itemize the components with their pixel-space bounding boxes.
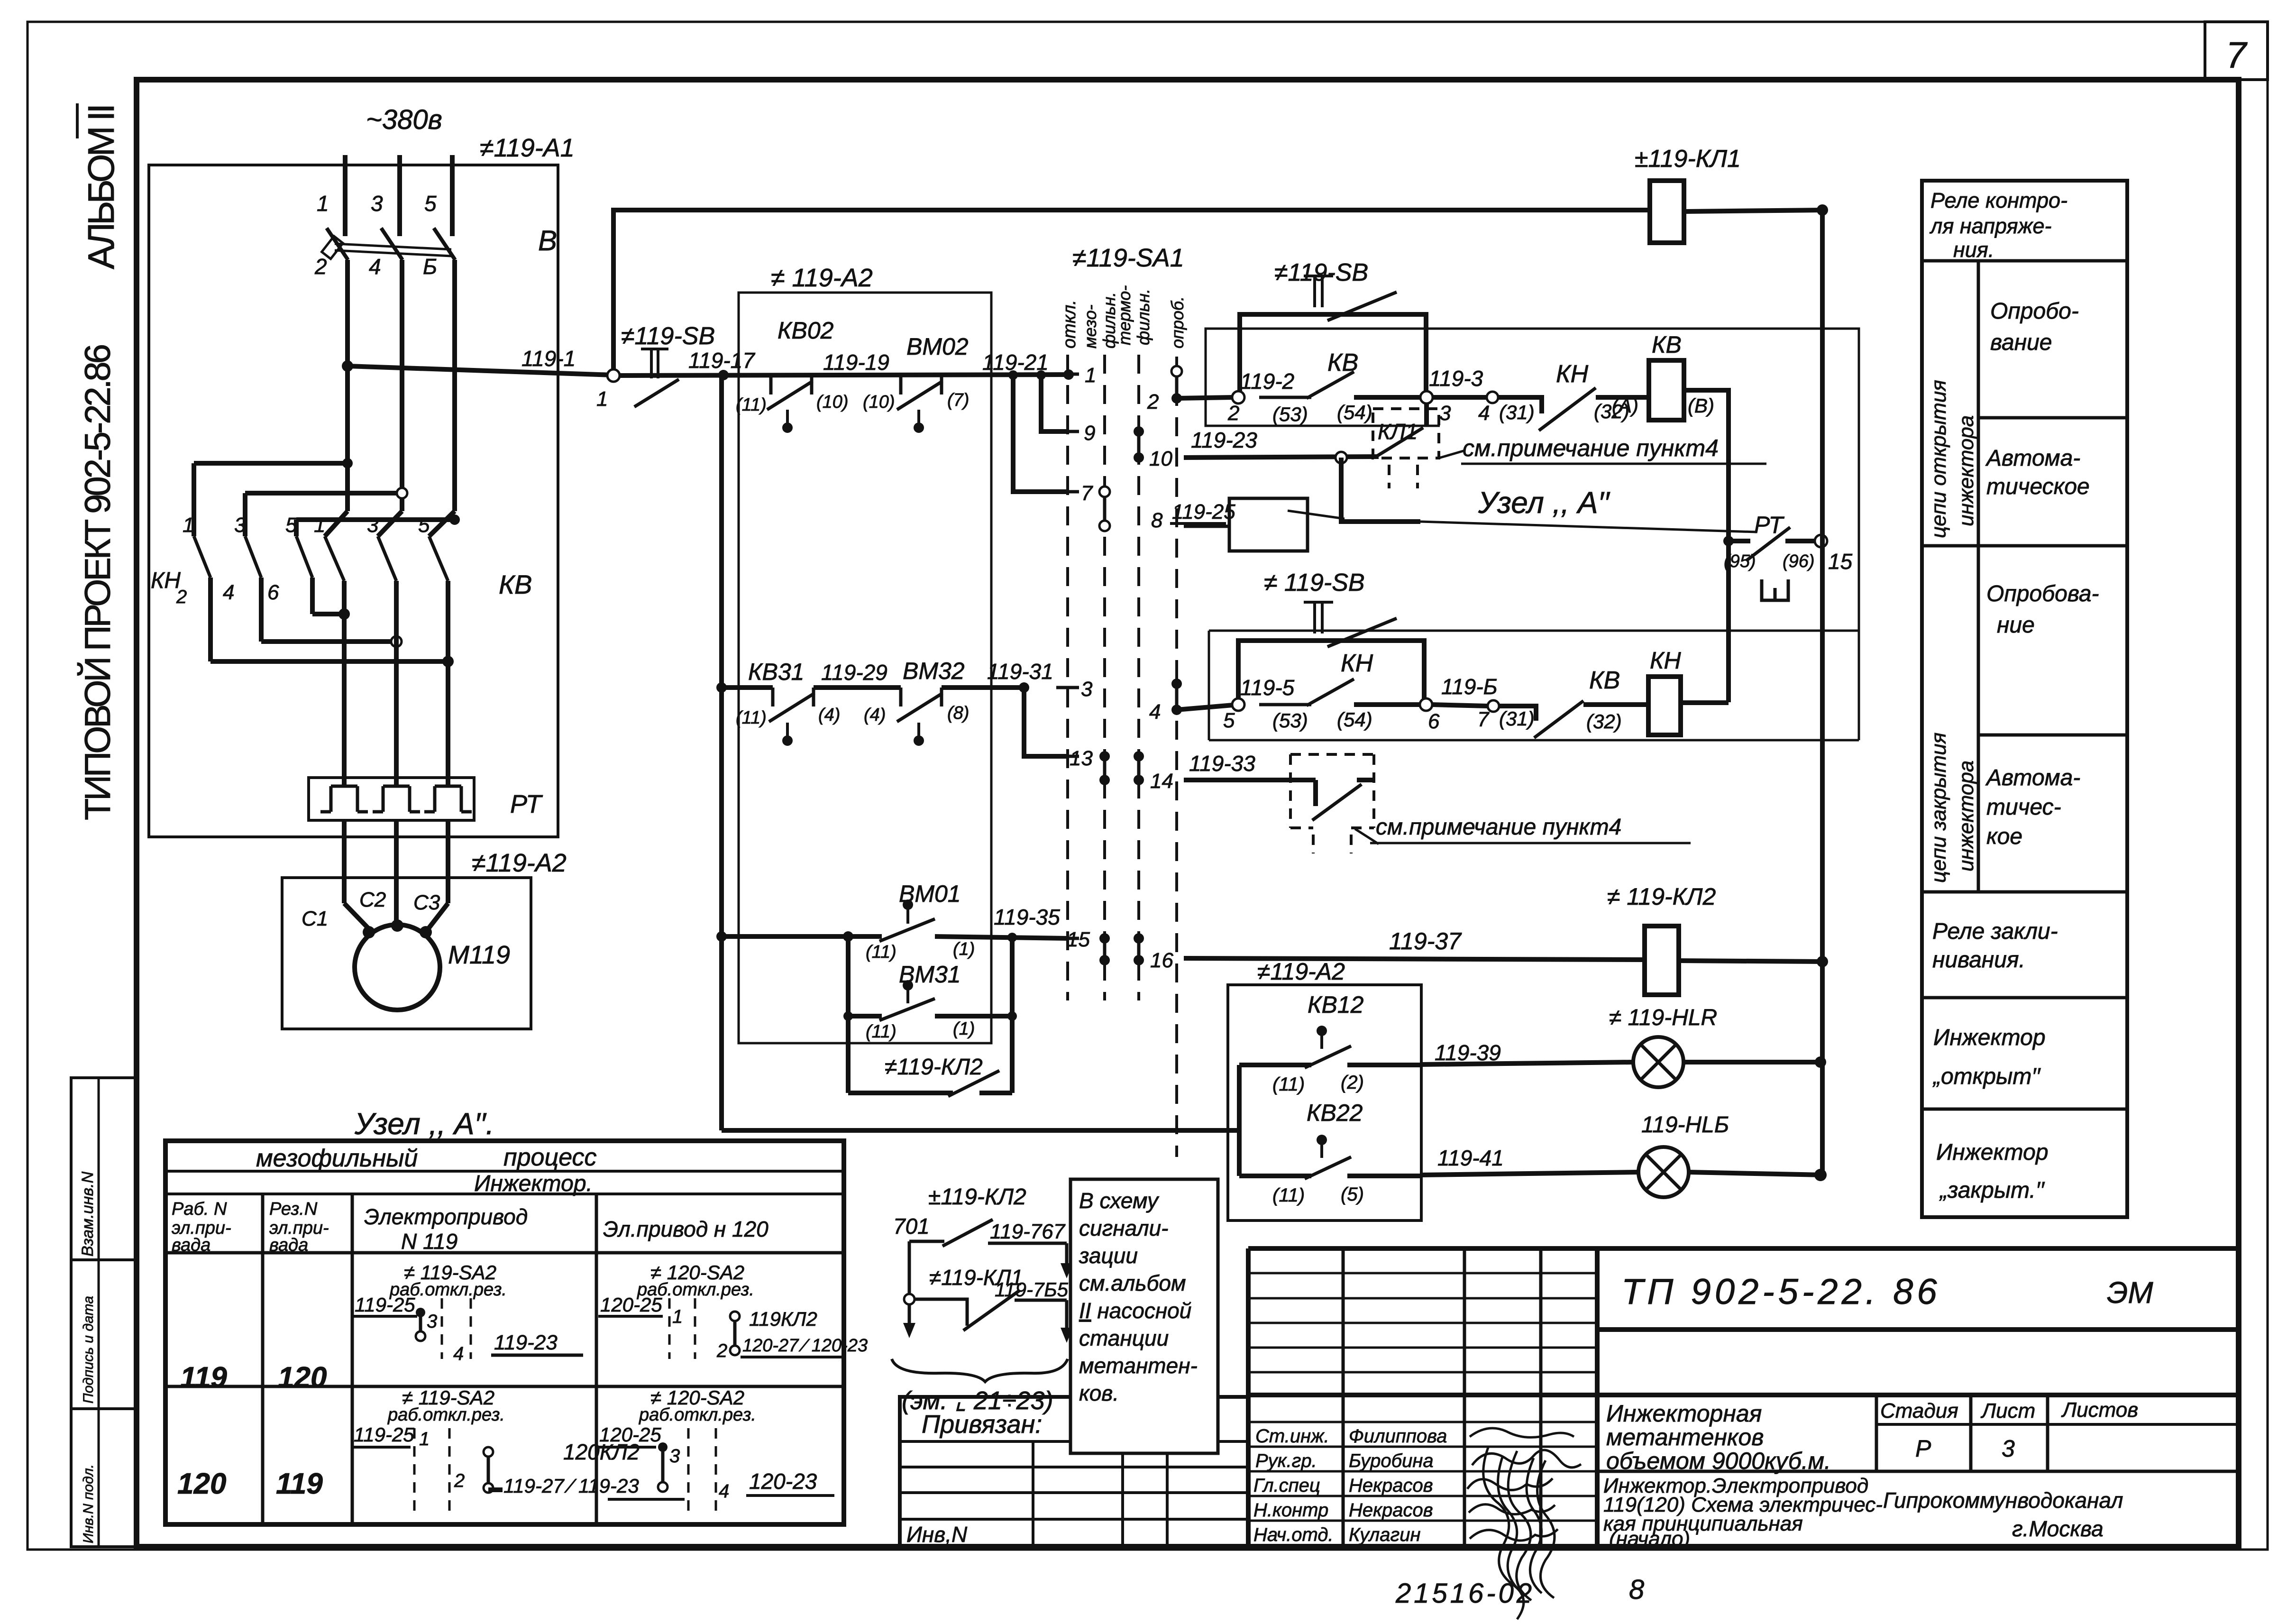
motor M119 xyxy=(355,925,440,1010)
svg-text:120-23: 120-23 xyxy=(749,1469,817,1494)
svg-text:М119: М119 xyxy=(448,941,510,969)
svg-text:нивания.: нивания. xyxy=(1932,947,2025,973)
relay KL1 contact dashed box xyxy=(1373,409,1439,458)
svg-text:119-23: 119-23 xyxy=(1191,428,1257,452)
svg-text:119-33: 119-33 xyxy=(1189,751,1255,776)
svg-text:цепи открытия: цепи открытия xyxy=(1927,380,1950,538)
node 119-1 tap xyxy=(342,360,353,372)
svg-text:4: 4 xyxy=(223,581,234,604)
svg-text:станции: станции xyxy=(1079,1326,1169,1350)
svg-text:тическое: тическое xyxy=(1986,474,2090,499)
svg-text:„открыт′′: „открыт′′ xyxy=(1932,1064,2041,1089)
svg-text:Электропривод: Электропривод xyxy=(364,1204,528,1229)
wire main row xyxy=(620,375,1068,376)
svg-text:(1): (1) xyxy=(953,1019,975,1039)
svg-text:8: 8 xyxy=(1151,509,1163,532)
svg-text:инжектора: инжектора xyxy=(1955,761,1978,872)
svg-text:≠119-SA1: ≠119-SA1 xyxy=(1072,244,1184,272)
svg-text:≠ 119-HLR: ≠ 119-HLR xyxy=(1609,1005,1717,1030)
svg-text:701: 701 xyxy=(893,1214,930,1239)
svg-text:раб.откл.рез.: раб.откл.рез. xyxy=(387,1405,505,1425)
wire 119-1 xyxy=(348,366,613,375)
node 119-6 xyxy=(1420,698,1432,711)
svg-text:г.Москва: г.Москва xyxy=(2012,1516,2104,1541)
phase line 1 xyxy=(343,155,348,236)
arrow to signal circuit 1 xyxy=(1065,1243,1069,1267)
svg-text:„закрыт.′′: „закрыт.′′ xyxy=(1939,1178,2045,1203)
KB12 KB22 box xyxy=(1228,985,1421,1220)
node 1 xyxy=(607,369,620,382)
right supply bus xyxy=(1820,210,1825,1175)
svg-text:119-25: 119-25 xyxy=(355,1294,415,1316)
svg-text:Раб. N: Раб. N xyxy=(172,1199,227,1219)
svg-text:119-2: 119-2 xyxy=(1240,369,1294,394)
svg-text:см.альбом: см.альбом xyxy=(1079,1271,1186,1295)
svg-text:(10): (10) xyxy=(863,392,895,412)
wire 119-41 xyxy=(1421,1172,1639,1175)
thin box around closing row xyxy=(1209,631,1859,740)
svg-text:119-39: 119-39 xyxy=(1435,1040,1501,1065)
svg-text:КВ02: КВ02 xyxy=(778,317,834,344)
node 119-17 xyxy=(718,370,729,380)
svg-text:С2: С2 xyxy=(359,888,386,911)
svg-text:5: 5 xyxy=(285,514,297,537)
svg-text:3: 3 xyxy=(669,1446,680,1467)
svg-text:Инжектор: Инжектор xyxy=(1933,1025,2046,1050)
svg-text:119КЛ2: 119КЛ2 xyxy=(749,1308,817,1330)
svg-text:3: 3 xyxy=(427,1311,437,1332)
svg-text:Рук.гр.: Рук.гр. xyxy=(1255,1450,1317,1471)
svg-text:7: 7 xyxy=(2226,34,2248,76)
SA1 bridges rows 13-14 xyxy=(1103,756,1107,780)
breaker tie bar xyxy=(335,244,451,249)
SB bypass loop xyxy=(1240,314,1426,396)
svg-text:метантен-: метантен- xyxy=(1079,1353,1198,1378)
svg-text:(11): (11) xyxy=(736,708,767,728)
svg-text:Филиппова: Филиппова xyxy=(1349,1426,1447,1447)
thermal relay RT box xyxy=(309,778,474,820)
svg-text:2: 2 xyxy=(1147,390,1159,413)
svg-text:119-35: 119-35 xyxy=(994,905,1060,929)
svg-text:119-Б: 119-Б xyxy=(1441,674,1498,699)
SA1 ticks on otkl xyxy=(1056,373,1079,376)
svg-text:Инв.N подл.: Инв.N подл. xyxy=(81,1464,96,1543)
svg-text:3: 3 xyxy=(2002,1435,2015,1462)
node 119-3 xyxy=(1420,391,1433,404)
svg-text:119-37: 119-37 xyxy=(1389,928,1462,954)
svg-text:ТП 902-5-22. 86: ТП 902-5-22. 86 xyxy=(1621,1272,1941,1312)
svg-text:±119-КЛ1: ±119-КЛ1 xyxy=(1635,145,1741,173)
svg-text:(11): (11) xyxy=(1272,1185,1305,1206)
svg-text:КН: КН xyxy=(1556,360,1589,388)
svg-text:ля напряже-: ля напряже- xyxy=(1929,214,2052,238)
node A link xyxy=(1341,458,1420,522)
svg-text:вада: вада xyxy=(269,1235,308,1255)
SA1 bridge rows 9-10 xyxy=(1137,431,1141,458)
svg-text:Инв,N: Инв,N xyxy=(906,1522,968,1547)
crossover wire top3 xyxy=(296,517,455,522)
svg-text:Подпись и дата: Подпись и дата xyxy=(81,1296,96,1404)
SA1 bridge rows 3-4 xyxy=(1175,684,1179,710)
svg-text:метантенков: метантенков xyxy=(1606,1424,1764,1450)
svg-text:(31): (31) xyxy=(1499,401,1535,423)
LEFT CONTROL BUS xyxy=(719,377,724,1130)
branch to row 7 xyxy=(1008,370,1018,380)
RT thermal element symbol xyxy=(1762,579,1788,600)
svg-text:14: 14 xyxy=(1150,770,1173,793)
svg-text:Кулагин: Кулагин xyxy=(1349,1524,1420,1545)
svg-text:(начало): (начало) xyxy=(1609,1527,1690,1551)
svg-text:±119-КЛ2: ±119-КЛ2 xyxy=(928,1184,1026,1210)
svg-text:II насосной: II насосной xyxy=(1079,1298,1191,1323)
svg-text:4: 4 xyxy=(1478,402,1490,425)
svg-text:(7): (7) xyxy=(947,390,969,410)
wire row 5 xyxy=(1177,705,1233,710)
dashed stubs below KL1 box 2 xyxy=(1313,835,1351,853)
svg-text:С3: С3 xyxy=(413,891,440,914)
svg-text:7: 7 xyxy=(1477,708,1490,731)
svg-text:119: 119 xyxy=(180,1361,227,1394)
svg-text:6: 6 xyxy=(1428,710,1440,733)
signal note box xyxy=(1070,1179,1218,1453)
svg-text:Эл.привод н 120: Эл.привод н 120 xyxy=(603,1217,768,1241)
svg-text:см.примечание пункт4: см.примечание пункт4 xyxy=(1376,815,1621,840)
svg-text:13: 13 xyxy=(1070,747,1093,770)
svg-text:объемом 9000куб.м.: объемом 9000куб.м. xyxy=(1606,1448,1831,1474)
svg-text:ТИПОВОЙ ПРОЕКТ 902-5-22.86: ТИПОВОЙ ПРОЕКТ 902-5-22.86 xyxy=(77,344,118,820)
svg-text:119-19: 119-19 xyxy=(823,350,889,375)
svg-text:≠ 119-КЛ2: ≠ 119-КЛ2 xyxy=(1607,883,1716,910)
svg-text:С1: С1 xyxy=(302,907,328,930)
svg-text:В схему: В схему xyxy=(1079,1188,1160,1213)
KH lower stubs xyxy=(208,578,213,661)
svg-text:9: 9 xyxy=(1084,422,1095,445)
svg-text:~380в: ~380в xyxy=(366,104,442,135)
thin box A2 xyxy=(739,293,991,1043)
svg-text:(4): (4) xyxy=(864,705,886,725)
crossover wire top1 xyxy=(194,461,348,466)
svg-text:≠119-А1: ≠119-А1 xyxy=(480,134,575,162)
svg-text:Н.контр: Н.контр xyxy=(1253,1500,1328,1521)
svg-text:Взам.инв.N: Взам.инв.N xyxy=(79,1171,97,1257)
svg-text:(5): (5) xyxy=(1341,1184,1364,1205)
svg-text:(8): (8) xyxy=(947,703,969,723)
sheet number box 7 xyxy=(2205,22,2268,80)
svg-text:Некрасов: Некрасов xyxy=(1349,1500,1433,1521)
signature scribbles xyxy=(1470,1428,1574,1437)
svg-text:119-25: 119-25 xyxy=(354,1423,414,1446)
svg-text:2: 2 xyxy=(716,1340,727,1361)
svg-text:3: 3 xyxy=(1439,402,1451,425)
svg-text:сигнали-: сигнали- xyxy=(1079,1216,1169,1240)
ROW BM01 xyxy=(716,931,727,942)
svg-text:Опробова-: Опробова- xyxy=(1986,581,2099,606)
svg-text:КВ: КВ xyxy=(499,569,532,599)
svg-text:(54): (54) xyxy=(1337,401,1372,423)
svg-text:119-27 ∕ 119-23: 119-27 ∕ 119-23 xyxy=(503,1475,639,1497)
svg-text:15: 15 xyxy=(1828,549,1853,574)
svg-text:120: 120 xyxy=(177,1468,226,1500)
svg-text:(10): (10) xyxy=(816,392,849,412)
svg-text:(4): (4) xyxy=(818,705,840,725)
svg-text:2: 2 xyxy=(176,587,187,607)
svg-text:КВ: КВ xyxy=(1652,331,1682,358)
svg-text:(11): (11) xyxy=(736,395,767,415)
svg-text:(96): (96) xyxy=(1783,551,1815,571)
svg-text:Реле контро-: Реле контро- xyxy=(1930,188,2067,212)
svg-text:КВ: КВ xyxy=(1589,667,1620,694)
svg-text:(1): (1) xyxy=(953,939,975,959)
svg-text:КЛ1: КЛ1 xyxy=(1378,419,1418,444)
svg-text:(11): (11) xyxy=(866,1022,896,1042)
RT heater 3 xyxy=(424,786,472,812)
PRIVYAZAN TABLE xyxy=(900,1397,1248,1547)
svg-text:Гл.спец: Гл.спец xyxy=(1253,1475,1320,1496)
SA1 bridge rows 1-2 xyxy=(1175,371,1179,398)
svg-text:2: 2 xyxy=(454,1470,465,1491)
svg-text:(11): (11) xyxy=(1272,1074,1305,1095)
svg-text:119-1: 119-1 xyxy=(521,346,576,371)
phase line 5 xyxy=(450,155,455,236)
svg-text:КВ22: КВ22 xyxy=(1307,1100,1363,1126)
power compartment box A1 xyxy=(149,165,558,837)
crossover wire bottom2 xyxy=(261,639,396,644)
svg-text:3: 3 xyxy=(367,514,379,537)
svg-text:119-5: 119-5 xyxy=(1240,675,1295,700)
SA1 column oprob xyxy=(1175,357,1178,1157)
svg-text:Автома-: Автома- xyxy=(1985,765,2080,790)
svg-text:120-25: 120-25 xyxy=(599,1423,661,1446)
svg-text:8: 8 xyxy=(1629,1574,1644,1605)
svg-text:откл.: откл. xyxy=(1060,300,1079,349)
svg-text:Листов: Листов xyxy=(2061,1398,2138,1422)
svg-text:1: 1 xyxy=(183,514,194,537)
motor terminals xyxy=(363,926,375,938)
svg-text:Б: Б xyxy=(423,254,437,279)
svg-text:Гипрокоммунводоканал: Гипрокоммунводоканал xyxy=(1883,1488,2123,1513)
KH contactor upper stubs xyxy=(192,463,196,536)
svg-text:ние: ние xyxy=(1997,613,2035,638)
svg-text:Опробо-: Опробо- xyxy=(1990,299,2079,324)
svg-text:Привязан:: Привязан: xyxy=(922,1410,1042,1439)
feeds to motor xyxy=(342,820,347,903)
TITLE BLOCK xyxy=(1248,1246,2237,1251)
svg-text:КН: КН xyxy=(1341,650,1373,677)
svg-text:5: 5 xyxy=(424,191,437,216)
RT heater 2 xyxy=(373,786,420,812)
crossover wire bottom3 xyxy=(210,659,448,664)
svg-text:КВ31: КВ31 xyxy=(748,659,804,685)
wire 119-33 row 14 xyxy=(1184,778,1316,782)
phase line 3 xyxy=(397,155,402,236)
svg-text:ЭМ: ЭМ xyxy=(2107,1275,2153,1310)
svg-text:120: 120 xyxy=(278,1361,327,1394)
svg-text:16: 16 xyxy=(1150,949,1173,972)
svg-text:термо-: термо- xyxy=(1115,285,1134,345)
arrow to signal circuit 2 xyxy=(1065,1300,1069,1331)
ROW 3 KB31 xyxy=(716,682,727,693)
svg-text:(А): (А) xyxy=(1612,395,1638,417)
svg-text:ния.: ния. xyxy=(1953,238,1994,262)
svg-text:5: 5 xyxy=(1223,709,1235,732)
svg-text:(32): (32) xyxy=(1586,710,1622,733)
svg-text:зации: зации xyxy=(1079,1243,1138,1268)
relay KL1 contact 2 dashed box xyxy=(1290,754,1374,828)
SA1 column termo xyxy=(1137,355,1140,1000)
svg-text:3: 3 xyxy=(234,514,246,537)
svg-text:Нач.отд.: Нач.отд. xyxy=(1253,1524,1334,1545)
svg-text:(54): (54) xyxy=(1337,708,1372,731)
svg-text:(В): (В) xyxy=(1688,395,1714,417)
KH contact poles xyxy=(194,536,210,578)
svg-text:≠ 119-А2: ≠ 119-А2 xyxy=(771,264,873,292)
ROW BM31 xyxy=(843,1011,853,1021)
crossover wire bottom1 xyxy=(312,612,344,616)
svg-text:Инжекторная: Инжекторная xyxy=(1606,1400,1762,1427)
KB contact poles xyxy=(325,536,344,581)
wire from KB coil to RT contact xyxy=(1684,390,1729,702)
svg-text:119-3: 119-3 xyxy=(1429,366,1483,391)
SA1 bridge rows 7-8 xyxy=(1103,492,1107,526)
svg-text:3: 3 xyxy=(371,191,383,216)
svg-text:15: 15 xyxy=(1067,928,1090,951)
motor feed lines to RT xyxy=(342,581,347,786)
svg-text:Узел ,, А′′: Узел ,, А′′ xyxy=(1478,486,1610,520)
svg-text:РТ: РТ xyxy=(510,790,543,818)
svg-text:1: 1 xyxy=(672,1306,683,1327)
svg-text:119-7Б5: 119-7Б5 xyxy=(995,1278,1069,1301)
svg-text:119-41: 119-41 xyxy=(1437,1146,1504,1170)
svg-text:Буробина: Буробина xyxy=(1349,1450,1434,1471)
wire 119-23 row 10 xyxy=(1184,457,1379,458)
svg-text:вада: вада xyxy=(172,1235,210,1255)
svg-text:≠119-SB: ≠119-SB xyxy=(621,322,715,350)
bottom-left stamp boxes xyxy=(71,1078,135,1260)
wire to KL1 coil xyxy=(613,210,1649,369)
svg-text:120-25: 120-25 xyxy=(600,1294,662,1316)
svg-text:3: 3 xyxy=(1081,678,1093,701)
svg-text:1: 1 xyxy=(1085,364,1096,387)
block box on row 8 xyxy=(1229,498,1308,551)
BM31 loop verticals xyxy=(846,936,851,1093)
dashed stubs below KL1 box xyxy=(1389,465,1418,488)
svg-text:119: 119 xyxy=(276,1468,323,1500)
note pointer row2 xyxy=(1439,450,1465,458)
svg-text:тичес-: тичес- xyxy=(1986,795,2061,820)
circuit breaker B poles xyxy=(327,228,348,260)
svg-text:кое: кое xyxy=(1986,824,2022,849)
ROW 16 wire 119-37 xyxy=(1184,958,1645,960)
svg-text:КН: КН xyxy=(1650,647,1681,674)
svg-text:1: 1 xyxy=(314,514,325,537)
RIGHT LEGEND TABLE xyxy=(1922,181,2127,1217)
svg-text:119-29: 119-29 xyxy=(821,660,887,685)
svg-text:АЛЬБОМ II: АЛЬБОМ II xyxy=(80,103,122,269)
svg-text:Автома-: Автома- xyxy=(1985,446,2080,471)
svg-text:1: 1 xyxy=(419,1429,430,1450)
node on row 1 xyxy=(1063,369,1074,380)
note pointer row14 xyxy=(1355,829,1379,844)
thin box A1 around row 2 xyxy=(1206,329,1859,740)
svg-text:Стадия: Стадия xyxy=(1880,1399,1958,1422)
svg-text:Рез.N: Рез.N xyxy=(269,1199,318,1219)
wire 701 drop xyxy=(908,1241,911,1326)
branch to row 9 xyxy=(1036,370,1046,380)
svg-text:(11): (11) xyxy=(866,942,896,962)
svg-text:(31): (31) xyxy=(1499,707,1535,730)
svg-text:Р: Р xyxy=(1915,1435,1931,1462)
svg-text:119-25: 119-25 xyxy=(1172,500,1235,523)
svg-text:Инжектор: Инжектор xyxy=(1936,1140,2049,1165)
svg-text:≠119-А2: ≠119-А2 xyxy=(472,849,567,877)
svg-text:Лист: Лист xyxy=(1980,1399,2035,1422)
step to row 13 xyxy=(1019,682,1029,693)
svg-text:4: 4 xyxy=(369,254,381,279)
svg-text:2: 2 xyxy=(1227,402,1239,425)
svg-text:≠119-КЛ2: ≠119-КЛ2 xyxy=(885,1055,983,1080)
svg-text:фильн.: фильн. xyxy=(1134,289,1153,345)
svg-text:6: 6 xyxy=(267,581,279,604)
svg-text:ВМ32: ВМ32 xyxy=(903,658,965,684)
svg-text:Некрасов: Некрасов xyxy=(1349,1475,1433,1496)
svg-text:120-27 ∕ 120-23: 120-27 ∕ 120-23 xyxy=(742,1336,868,1356)
svg-text:(53): (53) xyxy=(1272,403,1308,425)
svg-text:Инжектор.: Инжектор. xyxy=(474,1171,593,1196)
svg-text:опроб.: опроб. xyxy=(1168,296,1187,349)
svg-text:1: 1 xyxy=(317,191,329,216)
svg-text:7: 7 xyxy=(1081,482,1093,505)
svg-text:N 119: N 119 xyxy=(401,1229,457,1254)
svg-text:инжектора: инжектора xyxy=(1955,415,1978,526)
svg-text:≠ 119-SB: ≠ 119-SB xyxy=(1264,569,1365,596)
SA1 column mezo xyxy=(1103,355,1106,1000)
brace xyxy=(892,1359,1068,1382)
SA1 bridges rows 15-16 xyxy=(1103,938,1107,960)
svg-text:ков.: ков. xyxy=(1079,1381,1119,1405)
svg-text:119-HLБ: 119-HLБ xyxy=(1641,1112,1729,1138)
svg-text:Реле закли-: Реле закли- xyxy=(1932,919,2058,944)
svg-text:Ст.инж.: Ст.инж. xyxy=(1255,1426,1329,1447)
svg-text:10: 10 xyxy=(1149,447,1172,470)
svg-text:мезо-: мезо- xyxy=(1080,304,1100,349)
svg-text:4: 4 xyxy=(1149,700,1161,724)
svg-text:см.примечание пункт4: см.примечание пункт4 xyxy=(1463,435,1719,461)
svg-text:вание: вание xyxy=(1990,330,2052,355)
svg-text:119-31: 119-31 xyxy=(987,659,1053,684)
svg-text:Узел ,, А′′.: Узел ,, А′′. xyxy=(354,1107,494,1141)
svg-text:раб.откл.рез.: раб.откл.рез. xyxy=(639,1405,756,1425)
svg-text:119-767: 119-767 xyxy=(990,1220,1066,1243)
phase continuations xyxy=(345,260,350,511)
svg-text:119-23: 119-23 xyxy=(494,1331,558,1354)
SA1 column otkl xyxy=(1066,355,1069,1000)
svg-text:процесс: процесс xyxy=(503,1144,597,1171)
svg-text:21516-02: 21516-02 xyxy=(1395,1578,1535,1609)
svg-text:4: 4 xyxy=(719,1481,729,1502)
svg-text:(95): (95) xyxy=(1724,551,1756,571)
svg-text:4: 4 xyxy=(453,1343,464,1364)
svg-text:В: В xyxy=(538,225,557,257)
svg-text:≠119-А2: ≠119-А2 xyxy=(1257,958,1345,985)
wire 119-39 xyxy=(1421,1062,1634,1064)
svg-text:1: 1 xyxy=(596,387,608,411)
crossover wire top2 xyxy=(245,491,402,495)
RT heater 1 xyxy=(320,786,368,812)
wire row 2 xyxy=(1177,397,1233,398)
motor box xyxy=(282,878,531,1029)
wire 119-25 row 8 xyxy=(1184,525,1229,528)
svg-text:5: 5 xyxy=(418,514,430,537)
